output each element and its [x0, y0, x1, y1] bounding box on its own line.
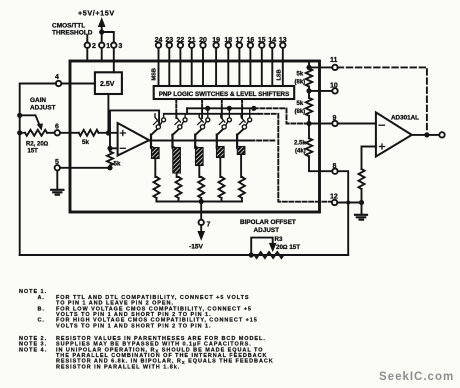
svg-text:17: 17 — [236, 37, 244, 44]
svg-text:AD301AL: AD301AL — [391, 115, 419, 122]
supply arrow +5V/+15V — [101, 24, 103, 43]
resistor emitter E5 — [237, 147, 245, 155]
node: R3 left — [249, 252, 254, 257]
wire pin4 to left rail — [20, 84, 56, 256]
svg-text:RESISTOR IN PARALLEL WITH 1.8k: RESISTOR IN PARALLEL WITH 1.8k. — [56, 364, 180, 370]
wire to pin 7 — [200, 202, 202, 220]
resistor 5k (8k) upper — [306, 69, 312, 87]
svg-text:THRESHOLD: THRESHOLD — [52, 30, 93, 37]
node: pin10 tap — [306, 88, 311, 93]
transistor Q1 — [150, 135, 152, 148]
wire pin 14 — [271, 48, 273, 86]
wire pin 11 — [309, 66, 332, 68]
wire pin 16 — [249, 48, 251, 86]
wire pin2 into box — [86, 48, 88, 61]
offset rail dashed to pin 12 — [259, 114, 332, 202]
svg-text:2.5k: 2.5k — [294, 141, 306, 147]
wire pin 10 — [309, 90, 332, 92]
base rail — [149, 140, 250, 142]
svg-text:+5V/+15V: +5V/+15V — [78, 9, 115, 18]
pin 10 — [332, 88, 337, 93]
svg-text:16: 16 — [247, 37, 255, 44]
transistor Q3 — [194, 135, 196, 148]
node: minus input — [107, 146, 112, 151]
node: pin9 tap — [306, 121, 311, 126]
switch S1 — [156, 125, 160, 129]
pin 4 — [56, 81, 61, 86]
svg-text:10: 10 — [330, 83, 338, 90]
wire 5k to +input — [99, 132, 118, 134]
svg-text:GAIN: GAIN — [30, 97, 46, 104]
switch S2 — [178, 125, 182, 129]
svg-text:ADJUST: ADJUST — [30, 105, 56, 112]
svg-text:9: 9 — [333, 115, 337, 122]
wire +input to resistor — [362, 147, 376, 170]
svg-text:14: 14 — [268, 37, 276, 44]
svg-text:NOTE 4.: NOTE 4. — [19, 347, 47, 353]
pot R3 loop — [251, 238, 273, 255]
transistor Q2 — [171, 135, 173, 148]
wire pin5 — [60, 167, 110, 169]
svg-text:2: 2 — [92, 43, 96, 50]
resistor emitter E3 — [196, 148, 204, 166]
svg-text:5k: 5k — [297, 101, 304, 107]
pin 11 — [332, 65, 337, 70]
svg-text:MSB: MSB — [152, 68, 158, 80]
svg-text:11: 11 — [330, 57, 338, 64]
wire pin2 threshold stub — [86, 36, 88, 43]
svg-text:5k: 5k — [114, 161, 121, 168]
pin numbers top — [155, 37, 287, 44]
wire pin1 into box — [101, 48, 103, 61]
svg-text:1: 1 — [106, 43, 110, 50]
svg-text:12: 12 — [330, 194, 338, 201]
pin 6 — [55, 130, 60, 135]
svg-text:ADJUST: ADJUST — [254, 227, 280, 234]
pin 15 — [259, 43, 264, 48]
wire pin 24 — [158, 48, 160, 86]
resistor 2.5k (4k) — [306, 138, 312, 156]
pin 5 — [55, 165, 60, 170]
svg-text:VOLTS TO PIN 1 AND SHORT PIN 2: VOLTS TO PIN 1 AND SHORT PIN 2 TO PIN 1. — [56, 323, 211, 329]
output terminal — [439, 132, 444, 137]
pin 3 — [111, 43, 116, 48]
svg-text:5k: 5k — [297, 72, 304, 78]
svg-text:15: 15 — [258, 37, 266, 44]
pin 9 — [332, 121, 337, 126]
svg-text:20Ω 15T: 20Ω 15T — [276, 244, 300, 251]
bottom wire — [20, 254, 349, 256]
resistor emitter E1 — [152, 148, 160, 159]
node: ground junction — [359, 200, 364, 205]
wire pin 23 — [168, 48, 170, 86]
node: output junction — [424, 132, 429, 137]
wire pin 21 — [191, 48, 193, 86]
node: 5k bottom — [107, 165, 112, 170]
node: +input junction — [106, 130, 111, 135]
output wire — [412, 134, 440, 136]
svg-text:7: 7 — [207, 222, 211, 229]
svg-text:LSB: LSB — [277, 69, 283, 80]
switch S3 — [200, 125, 204, 129]
minus input stub — [110, 147, 118, 149]
ground symbol right — [361, 203, 363, 215]
bottom emitter rail — [157, 201, 243, 203]
svg-text:21: 21 — [188, 37, 196, 44]
svg-text:SeekIC.com: SeekIC.com — [379, 371, 454, 383]
ground at pin5 — [56, 171, 58, 190]
svg-text:(4k): (4k) — [295, 149, 306, 155]
node: cross junction — [346, 201, 350, 205]
wire pin6 to 5k — [60, 132, 79, 134]
potentiometer R2 — [25, 130, 47, 136]
resistor on +input — [359, 169, 365, 189]
node dots on output rail — [205, 106, 210, 111]
resistor 5k (8k) lower — [306, 98, 312, 116]
resistor emitter E4 — [217, 147, 225, 158]
svg-text:R2, 20Ω: R2, 20Ω — [26, 142, 49, 148]
feedback loop wire — [110, 110, 159, 148]
svg-text:8: 8 — [333, 163, 337, 170]
svg-text:R3: R3 — [275, 236, 283, 243]
resistor 5k input — [79, 130, 99, 136]
wire pin12 to ground node — [337, 202, 361, 204]
wire pin 19 — [215, 48, 217, 86]
wire pin 17 — [238, 48, 240, 86]
svg-text:4: 4 — [55, 74, 59, 81]
wire pin 20 — [202, 48, 204, 86]
pin 18 — [226, 43, 231, 48]
potentiometer R3 — [255, 252, 284, 258]
transistor Q4 — [216, 135, 218, 148]
svg-text:(8k): (8k) — [295, 109, 306, 115]
arrow to -15V — [200, 225, 202, 234]
svg-text:-15V: -15V — [189, 244, 204, 251]
svg-text:CMOS/TTL: CMOS/TTL — [52, 22, 85, 29]
wire pin8 down — [338, 171, 349, 255]
dashed control lines from logic box — [175, 100, 177, 120]
svg-text:3: 3 — [118, 43, 122, 50]
notes block — [19, 289, 274, 370]
pin 4 stub — [61, 83, 95, 85]
pin 20 — [200, 43, 205, 48]
collector output rail — [187, 107, 254, 109]
node: supply junction — [99, 29, 104, 34]
svg-text:PNP LOGIC SWITCHES & LEVEL SHI: PNP LOGIC SWITCHES & LEVEL SHIFTERS — [159, 91, 290, 98]
wire pin 22 — [179, 48, 181, 86]
potentiometer R2 wiper — [20, 115, 41, 127]
wire pin1 to pin3 branch — [102, 32, 114, 43]
pin 16 — [248, 43, 253, 48]
wire pin 18 — [227, 48, 229, 86]
svg-text:6: 6 — [55, 124, 59, 131]
pin 23 — [167, 43, 172, 48]
resistor emitter E2 — [173, 148, 181, 174]
digital input pins 24-13 — [156, 43, 286, 87]
svg-text:BIPOLAR OFFSET: BIPOLAR OFFSET — [240, 219, 296, 226]
2.5V reference box U2 — [95, 72, 122, 94]
pin 1 — [99, 43, 104, 48]
base rail dashed extension — [251, 140, 277, 142]
offset rail — [164, 113, 259, 115]
svg-text:A.: A. — [38, 295, 45, 301]
pin 19 — [213, 43, 218, 48]
ladder chain top wire — [308, 61, 310, 69]
pin 13 — [280, 43, 285, 48]
svg-text:5k: 5k — [82, 139, 89, 146]
pin 22 — [178, 43, 183, 48]
wire pin 15 — [261, 48, 263, 86]
node: pin11 tap — [306, 65, 311, 70]
node: pin7 junction — [199, 199, 204, 204]
dashed feedback from pin 11 — [338, 67, 427, 132]
svg-text:24: 24 — [155, 37, 163, 44]
svg-text:23: 23 — [165, 37, 173, 44]
svg-text:B.: B. — [38, 306, 45, 312]
current switch cells — [151, 108, 252, 201]
output rail dashed link to ladder — [254, 108, 306, 123]
op-amp U1 internal — [118, 123, 150, 156]
svg-text:20: 20 — [199, 37, 207, 44]
svg-text:22: 22 — [177, 37, 185, 44]
pin 7 — [199, 220, 204, 225]
svg-text:13: 13 — [279, 37, 287, 44]
wire pin9 to op amp — [338, 123, 376, 125]
svg-text:15T: 15T — [28, 149, 39, 155]
pin 17 — [237, 43, 242, 48]
svg-text:5: 5 — [55, 159, 59, 166]
pin 8 — [332, 169, 337, 174]
wire chain bottom to pin 8 — [309, 156, 332, 171]
pin 21 — [189, 43, 194, 48]
svg-text:2.5V: 2.5V — [100, 81, 115, 88]
wire pin 9 — [309, 123, 332, 125]
svg-text:C.: C. — [38, 318, 45, 324]
pin 2 — [85, 43, 90, 48]
svg-text:18: 18 — [224, 37, 232, 44]
DAC package outline box — [70, 61, 320, 212]
pin 12 — [332, 200, 337, 205]
svg-text:19: 19 — [212, 37, 220, 44]
switch S5 — [242, 125, 246, 129]
transistor Q5 — [236, 135, 238, 148]
PNP logic switches box — [154, 86, 295, 99]
wire 2.5V output to +input — [107, 94, 109, 133]
pin 24 — [156, 43, 161, 48]
wire pin 13 — [282, 48, 284, 86]
resistor 5k feedback to pin5 — [107, 152, 113, 166]
pin 14 — [270, 43, 275, 48]
op-amp AD301AL — [376, 112, 412, 156]
node: wiper tap — [17, 113, 22, 118]
wire pin3 to 2.5V box — [113, 48, 115, 72]
svg-text:(8k): (8k) — [295, 80, 306, 86]
switch S4 — [222, 125, 226, 129]
